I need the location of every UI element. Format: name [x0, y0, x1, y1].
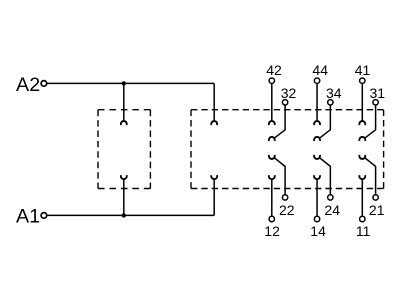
svg-text:22: 22: [279, 202, 295, 218]
wire lead 41: [361, 83, 363, 121]
terminal A1 circle: [41, 213, 47, 219]
wire lead 21 with jog: [365, 158, 376, 195]
terminal 41 circle: [360, 78, 365, 83]
terminal 11 circle: [360, 216, 365, 221]
wire A2 branch down into contact block: [213, 83, 215, 121]
svg-text:14: 14: [310, 223, 326, 239]
terminal 14 circle: [314, 216, 319, 221]
svg-text:A2: A2: [16, 74, 40, 96]
wire lead 24 with jog: [319, 158, 330, 195]
socket contact coil top: [121, 121, 127, 125]
wire lead 11: [361, 179, 363, 216]
socket contact 11: [359, 175, 365, 179]
wire lead 12: [271, 179, 273, 216]
terminal 34 circle: [328, 100, 333, 105]
svg-text:24: 24: [324, 202, 340, 218]
socket contact block bottom-left: [211, 175, 217, 179]
wire A1 horizontal: [47, 214, 215, 216]
terminal 42 circle: [269, 78, 274, 83]
svg-text:11: 11: [356, 223, 371, 239]
contact block dashed outline: [191, 110, 384, 189]
socket contact 31: [359, 137, 365, 141]
socket contact block top-left: [211, 121, 217, 125]
terminal 21 circle: [373, 195, 378, 200]
wire lead 32 with jog: [274, 105, 285, 138]
socket contact 32: [269, 137, 275, 141]
socket contact 42: [269, 121, 275, 125]
svg-text:34: 34: [326, 85, 342, 101]
socket contact 34: [314, 137, 320, 141]
terminal 32 circle: [282, 100, 287, 105]
terminal A2 circle: [41, 81, 47, 87]
wire lead 31 with jog: [365, 105, 376, 138]
socket contact coil bottom: [121, 175, 127, 179]
socket contact 24: [314, 155, 320, 159]
svg-text:A1: A1: [16, 205, 40, 227]
svg-text:32: 32: [281, 85, 297, 101]
wire lead 22 with jog: [274, 158, 285, 195]
terminal 22 circle: [282, 195, 287, 200]
node junction A2/coil: [122, 81, 126, 85]
svg-text:31: 31: [370, 85, 386, 101]
wire coil lead top: [123, 83, 125, 121]
socket contact 21: [359, 155, 365, 159]
socket contact 44: [314, 121, 320, 125]
wire lead 34 with jog: [319, 105, 330, 138]
socket contact 22: [269, 155, 275, 159]
svg-text:44: 44: [312, 62, 328, 78]
terminal 12 circle: [269, 216, 274, 221]
wire lead 44: [316, 83, 318, 121]
svg-text:21: 21: [369, 202, 385, 218]
socket contact 14: [314, 175, 320, 179]
svg-text:42: 42: [266, 62, 282, 78]
wire coil lead bottom: [123, 179, 125, 215]
socket contact 41: [359, 121, 365, 125]
svg-text:41: 41: [355, 62, 371, 78]
coil (relay) dashed outline K1: [98, 110, 150, 189]
wire lead 14: [316, 179, 318, 216]
svg-text:12: 12: [264, 223, 280, 239]
wire A2 horizontal: [47, 82, 215, 84]
terminal 44 circle: [314, 78, 319, 83]
wire lead 42: [271, 83, 273, 121]
wire A1 branch up into contact block: [213, 179, 215, 215]
terminal 31 circle: [373, 100, 378, 105]
node junction A1/coil: [122, 213, 126, 217]
socket contact 12: [269, 175, 275, 179]
terminal 24 circle: [328, 195, 333, 200]
